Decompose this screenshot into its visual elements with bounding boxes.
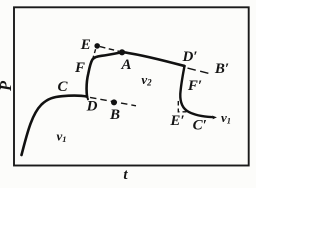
svg-text:B: B <box>109 107 120 123</box>
svg-text:D′: D′ <box>181 49 197 65</box>
svg-text:C′: C′ <box>193 118 207 134</box>
svg-text:F′: F′ <box>187 78 202 94</box>
svg-text:E: E <box>80 37 91 53</box>
svg-text:A: A <box>120 57 131 73</box>
svg-text:B′: B′ <box>214 61 229 77</box>
svg-text:E′: E′ <box>169 113 184 129</box>
svg-text:C: C <box>57 79 68 95</box>
svg-text:D: D <box>86 99 98 115</box>
svg-text:F: F <box>74 60 85 76</box>
svg-text:P: P <box>0 80 15 92</box>
